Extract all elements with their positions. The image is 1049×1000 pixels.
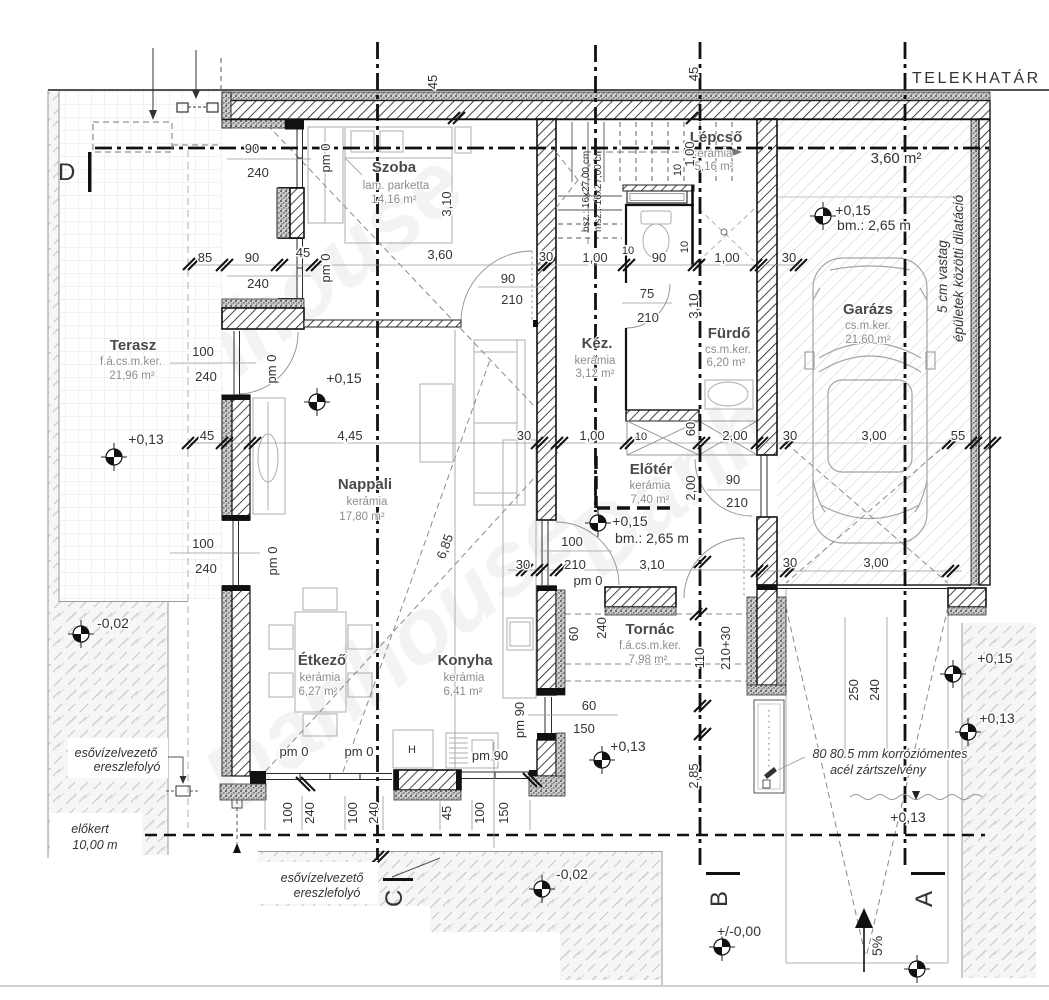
svg-text:Szoba: Szoba: [372, 159, 417, 176]
svg-text:bm.: 2,65 m: bm.: 2,65 m: [615, 530, 689, 546]
bottom wall corner speckle: [220, 784, 266, 800]
window W3 nappali west: [232, 520, 234, 586]
svg-text:240: 240: [247, 165, 269, 180]
window W2 szoba west: [296, 238, 298, 299]
szoba door dim: [478, 286, 545, 288]
stair walking line: [588, 152, 730, 244]
eloter-garage door: [695, 459, 752, 516]
svg-text:5 cm vastag: 5 cm vastag: [935, 240, 950, 313]
w2 sub line: [227, 275, 311, 277]
right side extents: [844, 617, 846, 757]
svg-text:7,98 m²: 7,98 m²: [629, 654, 668, 666]
svg-text:90: 90: [501, 271, 515, 286]
axis D horizontal: [95, 147, 990, 150]
nightstand: [455, 127, 471, 153]
svg-text:kerámia: kerámia: [300, 672, 342, 684]
svg-text:100: 100: [192, 344, 214, 359]
svg-text:30: 30: [539, 249, 553, 264]
arrow 2: [195, 50, 197, 92]
car in garage: [805, 258, 935, 543]
konyha-tornac wall segment B: [537, 586, 565, 695]
svg-text:240: 240: [247, 276, 269, 291]
svg-text:Lépcső: Lépcső: [690, 129, 743, 146]
svg-text:21,96 m²: 21,96 m²: [109, 370, 155, 382]
arrow 1: [152, 48, 154, 112]
eloter wardrobe boxes: [627, 421, 757, 455]
svg-text:210: 210: [564, 557, 586, 572]
garage bottom corner piece: [948, 588, 986, 615]
pillar P3 nappali west: [222, 586, 250, 776]
garage room door dim: [707, 489, 762, 491]
furdo south wall: [626, 410, 699, 421]
bottom wall corner black: [250, 771, 266, 790]
svg-text:pm 0: pm 0: [318, 254, 333, 283]
corner C1: [222, 299, 304, 329]
svg-text:pm 0: pm 0: [265, 547, 280, 576]
rotated dimension numbers: [264, 67, 882, 824]
sofa in Nappali: [474, 340, 525, 505]
dining table Etkezo: [269, 588, 372, 736]
door D2 leaf: [541, 521, 543, 585]
svg-text:6,20 m²: 6,20 m²: [707, 357, 746, 369]
svg-text:10: 10: [679, 241, 691, 253]
chain row y=265: [190, 264, 800, 266]
floor drain: [721, 229, 727, 235]
svg-text:240: 240: [302, 802, 317, 824]
svg-text:3,10: 3,10: [639, 557, 664, 572]
svg-text:kerámia: kerámia: [575, 355, 617, 367]
kez-furdo wall with door gap: [625, 266, 627, 283]
watermark: [70, 132, 963, 831]
svg-text:45: 45: [296, 245, 310, 260]
svg-text:2,00: 2,00: [722, 428, 747, 443]
w6 dim: [528, 714, 618, 716]
window W5 bottom kitchen: [461, 771, 530, 773]
svg-text:esővízelvezető: esővízelvezető: [281, 871, 365, 885]
svg-text:ereszlefolyó: ereszlefolyó: [294, 886, 361, 900]
svg-text:kerámia: kerámia: [630, 480, 672, 492]
svg-text:60: 60: [566, 627, 581, 641]
garage door leaf in east wall: [760, 455, 762, 517]
drain boxes: [177, 103, 188, 112]
svg-text:90: 90: [652, 250, 666, 265]
toilet in WC: [641, 211, 671, 258]
svg-text:17,80 m²: 17,80 m²: [339, 511, 385, 523]
svg-text:esővízelvezető: esővízelvezető: [75, 746, 159, 760]
w1 dim line: [227, 158, 311, 160]
svg-text:ereszlefolyó: ereszlefolyó: [94, 760, 161, 774]
svg-text:pm 90: pm 90: [512, 702, 527, 738]
konyha-eloter door: [556, 522, 619, 585]
garage right wall: [971, 119, 990, 585]
bottom extension lines: [264, 796, 266, 830]
svg-text:80 80.5 mm korróziómentes: 80 80.5 mm korróziómentes: [813, 747, 968, 761]
svg-text:bm.: 2,65 m: bm.: 2,65 m: [837, 217, 911, 233]
svg-text:10: 10: [622, 245, 634, 257]
svg-text:100: 100: [345, 802, 360, 824]
svg-text:cs.m.ker.: cs.m.ker.: [705, 344, 751, 356]
w3 dim: [170, 552, 260, 554]
konyha-tornac wall segment A: [537, 119, 556, 520]
axis A label: [911, 872, 945, 875]
top exterior wall hatch: [222, 101, 990, 120]
svg-text:240: 240: [594, 617, 609, 639]
row y=570: [508, 569, 760, 571]
svg-text:60: 60: [683, 422, 698, 436]
svg-text:21,60 m²: 21,60 m²: [845, 334, 891, 346]
svg-text:210: 210: [637, 310, 659, 325]
svg-text:10: 10: [672, 164, 684, 176]
garage floor hatch: [777, 119, 971, 585]
svg-text:msz.: 16x27,00 cm: msz.: 16x27,00 cm: [593, 148, 604, 232]
svg-text:45: 45: [425, 75, 440, 89]
property line left: [47, 90, 49, 858]
leader 80x80 steel: [778, 757, 805, 770]
svg-text:+0,13: +0,13: [128, 431, 164, 447]
frame bottom light line: [0, 985, 1049, 987]
svg-text:pm 0: pm 0: [280, 744, 309, 759]
svg-text:55: 55: [951, 428, 965, 443]
svg-text:+0,13: +0,13: [610, 738, 646, 754]
svg-text:30: 30: [782, 250, 796, 265]
svg-text:110: 110: [692, 648, 707, 669]
terasz door arc: [239, 332, 298, 394]
front entrance door: [684, 538, 744, 598]
svg-text:+0,15: +0,15: [612, 513, 648, 529]
axis x=595: [594, 45, 597, 512]
shower dashed cross: [699, 209, 754, 261]
svg-text:-0,02: -0,02: [97, 615, 129, 631]
svg-text:C: C: [381, 890, 408, 907]
dashed overhang line left: [187, 150, 189, 828]
svg-text:30: 30: [517, 428, 531, 443]
svg-text:A: A: [911, 891, 938, 907]
svg-text:4,45: 4,45: [337, 428, 362, 443]
svg-text:+0,15: +0,15: [835, 202, 871, 218]
svg-text:100: 100: [192, 536, 214, 551]
svg-text:90: 90: [245, 250, 259, 265]
appliance H box: [393, 730, 433, 768]
axis C label: [383, 878, 413, 881]
tall cabinet at west wall: [253, 398, 285, 514]
terasz door leaf W: [233, 331, 235, 394]
yard texture left strip: [48, 92, 59, 602]
svg-text:100: 100: [561, 534, 583, 549]
svg-text:pm 0: pm 0: [574, 573, 603, 588]
top wall jog black cap: [285, 120, 304, 130]
window W1 szoba west: [296, 128, 298, 188]
svg-text:45: 45: [686, 67, 701, 81]
elokert dashed line: [50, 834, 985, 837]
garage door dim: [750, 570, 962, 572]
axis D label bar: [88, 152, 92, 192]
dashed box: [93, 122, 172, 152]
yard texture below terasz: [48, 602, 168, 855]
konyha-tornac wall segment C bottom: [529, 733, 565, 796]
tornac top wall piece: [605, 587, 676, 615]
tornac east wall pillar: [747, 585, 786, 695]
kitchen counter: [503, 440, 536, 698]
svg-text:7,40 m²: 7,40 m²: [631, 494, 670, 506]
svg-text:kerámia: kerámia: [692, 148, 734, 160]
svg-text:30: 30: [783, 555, 797, 570]
yard texture bottom band: [258, 851, 662, 980]
svg-text:240: 240: [366, 802, 381, 824]
svg-text:Fürdő: Fürdő: [708, 325, 751, 342]
garage door cross: [786, 443, 948, 583]
svg-text:250: 250: [846, 679, 861, 701]
svg-text:H: H: [408, 744, 416, 756]
bottom wall piece B2: [394, 770, 461, 800]
svg-text:3,10: 3,10: [439, 191, 454, 216]
svg-text:100: 100: [280, 802, 295, 824]
appliance box with vents: [446, 733, 498, 768]
svg-text:1,00: 1,00: [579, 428, 604, 443]
house-garage wall lower: [757, 517, 777, 585]
svg-text:3,00: 3,00: [861, 428, 886, 443]
garage gate line: [777, 196, 962, 198]
svg-text:6,41 m²: 6,41 m²: [444, 686, 483, 698]
tornac dashed boundary: [565, 663, 755, 665]
svg-text:pm 0: pm 0: [264, 355, 279, 384]
svg-text:Előtér: Előtér: [630, 461, 673, 478]
terasz floor grid: [59, 91, 222, 602]
break squiggle: [850, 795, 982, 800]
szoba partition wall: [304, 320, 461, 327]
top wall left cap: [222, 92, 231, 128]
driveway V: [786, 607, 866, 958]
svg-text:2,00: 2,00: [683, 475, 698, 500]
svg-text:5%: 5%: [869, 936, 885, 956]
top exterior wall speckle: [222, 92, 990, 101]
kez to furdo door: [626, 284, 670, 328]
chain row y=443: [188, 442, 985, 444]
svg-text:150: 150: [496, 802, 511, 824]
svg-text:+0,13: +0,13: [979, 710, 1015, 726]
svg-text:100: 100: [472, 802, 487, 824]
svg-text:+0,13: +0,13: [890, 809, 926, 825]
svg-text:D: D: [58, 159, 75, 186]
svg-text:kerámia: kerámia: [347, 496, 389, 508]
wc door dim: [622, 302, 672, 304]
wc upper thin wall: [623, 185, 694, 191]
svg-text:240: 240: [195, 369, 217, 384]
svg-text:90: 90: [245, 141, 259, 156]
svg-text:240: 240: [195, 561, 217, 576]
svg-text:45: 45: [439, 806, 454, 820]
svg-text:30: 30: [783, 428, 797, 443]
svg-text:1,00: 1,00: [714, 250, 739, 265]
bed in Szoba: [345, 127, 452, 243]
svg-text:épületek közötti dilatáció: épületek közötti dilatáció: [951, 194, 966, 342]
axis C vertical: [376, 42, 379, 860]
svg-text:3,00: 3,00: [863, 555, 888, 570]
dashed vertical at x=221 above wall: [220, 58, 222, 90]
svg-text:30: 30: [516, 557, 530, 572]
svg-text:+0,15: +0,15: [977, 650, 1013, 666]
svg-text:45: 45: [200, 428, 214, 443]
szoba door arc + leaf: [461, 251, 532, 322]
svg-text:Terasz: Terasz: [110, 337, 156, 354]
konyha door dim: [540, 550, 612, 552]
pillar P1 szoba west: [277, 188, 304, 238]
svg-text:90: 90: [726, 472, 740, 487]
svg-text:f.á.cs.m.ker.: f.á.cs.m.ker.: [100, 356, 162, 368]
yard texture right block: [962, 623, 1036, 978]
axis B vertical: [699, 42, 702, 868]
svg-text:B: B: [706, 891, 733, 907]
white label boxes: [68, 738, 168, 778]
svg-text:240: 240: [867, 679, 882, 701]
svg-text:3,60: 3,60: [427, 247, 452, 262]
svg-text:10: 10: [635, 431, 647, 443]
svg-text:60: 60: [582, 698, 596, 713]
terasz boundary lines: [58, 91, 60, 602]
svg-text:kerámia: kerámia: [444, 672, 486, 684]
svg-text:2,85: 2,85: [686, 763, 701, 788]
svg-text:210+30: 210+30: [718, 626, 733, 670]
axis A vertical: [904, 42, 907, 868]
svg-text:Tornác: Tornác: [626, 621, 675, 638]
property line top: [48, 89, 1049, 91]
svg-text:előkert: előkert: [71, 822, 109, 836]
svg-text:14,16 m²: 14,16 m²: [371, 194, 417, 206]
svg-text:+0,15: +0,15: [326, 370, 362, 386]
svg-text:lam. parketta: lam. parketta: [363, 180, 430, 192]
eloter pm thick dashes: [596, 456, 676, 508]
svg-text:Konyha: Konyha: [437, 652, 493, 669]
axis B label: [706, 872, 740, 875]
svg-text:bsz.: 16x27,00 cm: bsz.: 16x27,00 cm: [581, 151, 592, 232]
svg-text:Étkező: Étkező: [298, 652, 346, 669]
svg-text:5,16 m²: 5,16 m²: [695, 161, 734, 173]
svg-text:3,10: 3,10: [686, 293, 701, 318]
leader 2 + arrow up on elokert line: [392, 858, 440, 877]
svg-text:3,12 m²: 3,12 m²: [576, 368, 615, 380]
window W4 bottom: [266, 773, 392, 775]
top wall jog speckle: [231, 119, 285, 128]
svg-text:acél zártszelvény: acél zártszelvény: [830, 763, 927, 777]
svg-text:Garázs: Garázs: [843, 301, 893, 318]
top wall inner line: [222, 119, 990, 121]
svg-text:Nappali: Nappali: [338, 476, 392, 493]
garage bottom opening line: [777, 584, 971, 586]
svg-text:cs.m.ker.: cs.m.ker.: [845, 320, 891, 332]
svg-text:pm 90: pm 90: [472, 748, 508, 763]
terasz door dim: [170, 362, 256, 364]
svg-text:210: 210: [501, 292, 523, 307]
window W6 tornac: [544, 697, 546, 733]
svg-text:3,60 m²: 3,60 m²: [871, 150, 922, 167]
coffee table: [420, 384, 453, 462]
house-garage wall upper: [757, 119, 777, 455]
wc room walls: [625, 204, 627, 266]
wc cabinet: [627, 191, 687, 203]
pillar P2 nappali west: [222, 395, 250, 520]
svg-text:-0,02: -0,02: [556, 866, 588, 882]
svg-text:1,00: 1,00: [582, 250, 607, 265]
svg-text:150: 150: [573, 721, 595, 736]
svg-text:1,00: 1,00: [682, 141, 697, 166]
svg-text:+/-0,00: +/-0,00: [717, 923, 761, 939]
svg-text:TELEKHATÁR: TELEKHATÁR: [912, 68, 1041, 87]
wardrobe in Szoba: [308, 127, 343, 223]
svg-text:85: 85: [198, 250, 212, 265]
svg-text:75: 75: [640, 286, 654, 301]
leader 1: [163, 757, 183, 776]
svg-text:pm 0: pm 0: [318, 144, 333, 173]
under-stair dashes: [556, 152, 600, 208]
svg-text:210: 210: [726, 495, 748, 510]
washbasin in Furdo: [705, 380, 753, 409]
svg-text:6,27 m²: 6,27 m²: [299, 686, 338, 698]
svg-text:pm 0: pm 0: [345, 744, 374, 759]
svg-text:Kéz.: Kéz.: [582, 335, 613, 352]
steel column: [754, 700, 784, 793]
svg-text:f.á.cs.m.ker.: f.á.cs.m.ker.: [619, 640, 681, 652]
svg-text:10,00 m: 10,00 m: [72, 838, 117, 852]
